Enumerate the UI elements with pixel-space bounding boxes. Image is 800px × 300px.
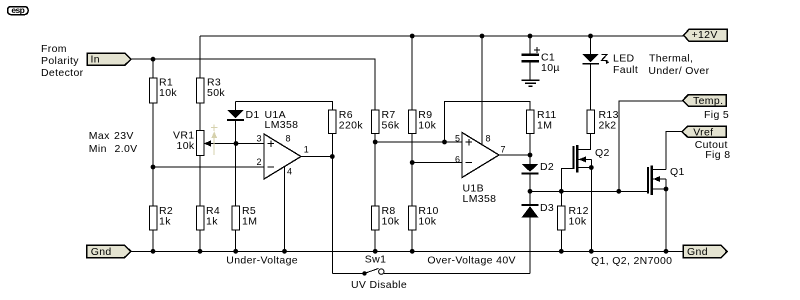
wire U1A feedback loop D1 to R6 [236,102,333,111]
wire ground rail [131,250,683,252]
svg-text:1M: 1M [242,215,257,227]
wire pin6 [412,162,462,164]
wire Q1 source to gnd [665,189,667,251]
svg-text:220k: 220k [339,120,364,132]
wire pin3 [236,143,264,145]
VR1 trim direction arrow (pale) [211,124,218,155]
svg-text:D3: D3 [540,202,554,214]
node Q2 source/gnd [589,249,594,254]
svg-text:4: 4 [287,167,292,177]
wire U1B feedback loop [445,102,531,143]
wire pin2 reference [153,166,264,168]
svg-text:23V: 23V [114,130,134,142]
wire Q1 drain to Vref [666,132,682,170]
svg-text:LM358: LM358 [463,193,497,205]
tag Gnd left [87,245,131,258]
svg-text:Over-Voltage 40V: Over-Voltage 40V [427,255,515,267]
svg-text:Under-Voltage: Under-Voltage [226,255,298,267]
svg-text:Thermal,: Thermal, [649,53,693,65]
node R12/gnd [559,249,564,254]
svg-text:esp: esp [11,5,24,15]
svg-text:8: 8 [286,133,291,143]
svg-text:From: From [41,43,67,55]
node R4/gnd [198,249,203,254]
text From Polarity Detector [41,43,84,79]
node U1A out / R6 [330,154,335,159]
svg-text:1k: 1k [159,215,171,227]
potentiometer VR1 [173,130,236,156]
svg-text:Gnd: Gnd [91,246,112,258]
svg-text:2: 2 [257,157,262,167]
resistor R2 [149,205,173,230]
svg-text:5: 5 [455,133,460,143]
transistor Q1 [648,166,685,196]
tag +12V [684,29,727,41]
svg-text:1M: 1M [537,120,552,132]
svg-text:10k: 10k [418,215,436,227]
wire R5 bottom [235,230,237,251]
node R1/R2 divider tap [151,165,156,170]
svg-text:10µ: 10µ [541,62,560,74]
svg-text:1: 1 [304,144,309,154]
diode D3 [522,191,555,273]
wire R3 riser from rail [199,36,201,78]
wire Q2 source to gnd [590,168,592,252]
wire R2 bottom [152,230,154,251]
node R12/Q2 gate [559,189,564,194]
svg-text:Gnd: Gnd [687,246,708,258]
svg-text:10k: 10k [159,87,177,99]
wire R9 riser to rail [411,36,413,110]
resistor R10 [409,205,439,230]
resistor R4 [196,205,220,230]
svg-text:3: 3 [257,133,262,143]
svg-text:Vref: Vref [693,127,713,139]
resistor R8 [372,205,400,230]
resistor R1 [149,77,177,103]
ground symbol under C1 [522,80,540,86]
wire R5 riser [235,144,237,207]
wire Q2 gate lead [562,168,574,191]
node Temp riser [616,189,621,194]
svg-text:LED: LED [613,53,635,65]
node Q1 source/gnd [664,249,669,254]
wire U1B output [499,154,530,156]
wire R6 bottom to output [331,134,333,157]
wire R1 top stub [152,59,154,78]
LED fault indicator [582,36,638,110]
resistor R9 [409,109,437,133]
tag In [87,53,131,65]
svg-text:Q2: Q2 [595,147,610,159]
resistor R13 [587,109,619,133]
svg-text:In: In [91,54,100,66]
svg-text:D2: D2 [540,161,554,173]
op-amp U1A [257,109,309,179]
svg-text:50k: 50k [207,87,225,99]
wire R9 to R10 [411,134,413,207]
wire In net horizontal [131,59,375,110]
svg-text:8: 8 [486,133,491,143]
wire R11 bottom to output node [529,134,531,156]
svg-text:Q1, Q2, 2N7000: Q1, Q2, 2N7000 [591,255,672,267]
wire pin5 [375,141,462,143]
op-amp U1B [455,133,506,205]
tag Gnd right [683,245,727,258]
wire fault node to Q1 gate [530,190,649,192]
node R8/gnd [373,249,378,254]
svg-text:7: 7 [501,144,506,154]
diode D2 [522,155,555,191]
switch Sw1 [332,254,530,276]
wire +12V top rail [200,35,684,37]
wire R13 bottom to Q2 drain [578,134,590,150]
svg-text:Sw1: Sw1 [365,254,386,266]
resistor R3 [196,77,225,103]
text Thermal Under/Over [648,53,709,77]
node In/R1 junction [151,57,156,62]
wire U1A output [301,156,332,158]
svg-text:10k: 10k [382,215,400,227]
wire R1 to R2 column [152,103,154,206]
svg-text:6: 6 [455,154,460,164]
svg-text:Under/ Over: Under/ Over [648,65,709,77]
wire Temp net riser [619,101,683,191]
wire R4 bottom [199,230,201,251]
wire U1A pin4 to ground rail [284,167,286,252]
node VR1 wiper / D1 / pin3 [234,141,239,146]
svg-text:10k: 10k [177,140,195,152]
resistor R5 [232,205,257,230]
node U1B out / R11 / D2 [528,153,533,158]
svg-text:2k2: 2k2 [599,120,617,132]
resistor R7 [372,109,400,133]
node pin8/rail [480,34,485,39]
node Q2 source [589,165,594,170]
svg-text:Max: Max [89,130,110,142]
wire VR1 to R4 [199,156,201,207]
svg-text:Q1: Q1 [670,166,685,178]
node R10/gnd [410,249,415,254]
svg-text:Fault: Fault [613,64,638,76]
resistor R6 [329,109,364,133]
diode D1 [227,102,260,144]
node D2/D3/fault [528,189,533,194]
svg-text:56k: 56k [382,120,400,132]
node R7/R8 tap pin5 [373,140,378,145]
node Q1 source [664,187,669,192]
node feedback to pin5 [442,140,447,145]
svg-text:Detector: Detector [41,67,84,79]
resistor R11 [526,109,556,133]
wire R3 to VR1 [199,103,201,131]
node U1A pin4/gnd [282,249,287,254]
svg-text:Polarity: Polarity [41,55,79,67]
svg-text:Fig 5: Fig 5 [704,109,729,121]
capacitor C1 [522,36,560,80]
wire R8 bottom [374,230,376,251]
node LED/rail [588,34,593,39]
node R9/R10 tap pin6 [410,160,415,165]
tag Temp [683,95,726,107]
text Max Min voltages [89,130,138,155]
svg-text:10k: 10k [418,120,436,132]
svg-text:D1: D1 [246,109,260,121]
svg-text:Fig 8: Fig 8 [705,149,730,161]
wire R12 bottom [560,230,562,251]
tag Vref [682,126,726,139]
svg-text:LM358: LM358 [265,119,299,131]
wire R12 top [560,191,562,206]
transistor Q2 [573,145,609,173]
node R5/gnd [233,249,238,254]
node R9/rail [410,34,415,39]
svg-text:10k: 10k [569,215,587,227]
wire R10 bottom [411,230,413,251]
svg-text:UV Disable: UV Disable [351,279,407,291]
svg-text:Temp.: Temp. [693,95,723,107]
wire R7 to R8 [374,134,376,207]
node C1/rail [528,34,533,39]
resistor R12 [558,205,589,230]
svg-text:2.0V: 2.0V [115,143,138,155]
svg-text:1k: 1k [206,215,218,227]
ESP logo [8,5,29,15]
node R2/gnd [151,249,156,254]
wire U1A out down to Sw1 [331,157,333,274]
svg-text:+12V: +12V [692,29,718,41]
wire U1B pin8 riser [481,36,483,145]
svg-text:Min: Min [89,143,107,155]
